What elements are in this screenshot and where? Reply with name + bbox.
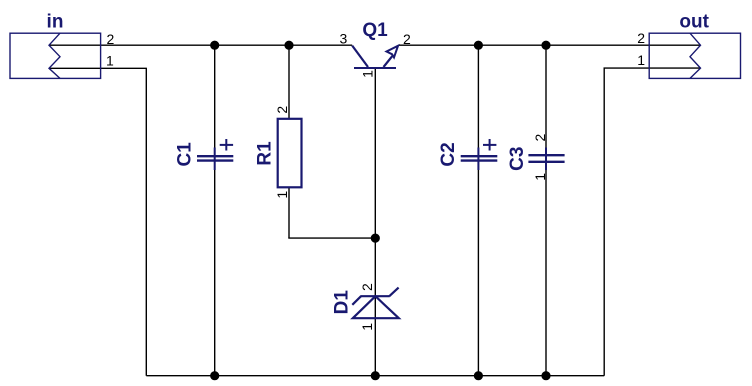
pin number: R1 pin 1 (274, 191, 290, 199)
label C2 (438, 142, 459, 166)
capacitor C1 (polarized) (197, 148, 233, 171)
wire: bottom ground rail (146, 375, 604, 377)
junction: C3 bottom (541, 371, 550, 380)
capacitor C3 (528, 148, 564, 171)
capacitor C2 (polarized) (461, 148, 498, 171)
junction: R1 top (284, 41, 293, 50)
resistor R1 (278, 119, 302, 188)
label C1 (175, 142, 196, 167)
wire: top rail IN node (in pin2 to Q1 pin3) (49, 44, 352, 46)
svg-text:3: 3 (340, 31, 348, 47)
svg-text:2: 2 (107, 31, 115, 47)
svg-text:1: 1 (637, 52, 645, 68)
label Q1 (362, 20, 388, 41)
connector "out" body (649, 33, 740, 78)
svg-text:Q1: Q1 (362, 20, 388, 41)
pin number: in pin 1 (106, 53, 114, 69)
transistor Q1 (352, 46, 398, 68)
wire: out pin1 horizontal segment (604, 67, 701, 69)
label "out" (679, 11, 709, 32)
wire: C1 vertical branch (214, 45, 216, 376)
svg-text:1: 1 (106, 53, 114, 69)
pin number: D1 pin 2 (359, 283, 375, 291)
svg-text:C1: C1 (175, 142, 196, 167)
wire: Q1 base / D1 vertical branch (374, 69, 376, 376)
C2 plus sign (483, 139, 496, 151)
junction: R1 / Q1 base node (371, 234, 380, 243)
wire: top rail OUT node (Q1 pin2 to out pin2) (398, 44, 700, 46)
pin number: out pin 1 (637, 52, 645, 68)
label C3 (507, 147, 528, 171)
svg-text:2: 2 (637, 30, 645, 46)
zener diode D1 (352, 288, 399, 319)
svg-text:2: 2 (532, 133, 548, 141)
pin number: Q1 pin 1 (359, 70, 375, 78)
svg-text:2: 2 (403, 31, 411, 47)
svg-text:in: in (47, 12, 64, 33)
svg-text:C2: C2 (438, 142, 459, 166)
label D1 (332, 290, 353, 315)
svg-text:2: 2 (274, 106, 290, 114)
svg-text:2: 2 (359, 283, 375, 291)
svg-text:1: 1 (359, 70, 375, 78)
junction: C1 bottom (210, 371, 219, 380)
wire: C2 vertical branch (477, 45, 479, 376)
wire: C3 vertical branch (545, 45, 547, 376)
wire: R1 to Q1 base node horizontal (288, 237, 375, 239)
junction: C1 top (210, 41, 219, 50)
wire: right vertical drop to bottom rail (603, 68, 605, 376)
wire: left vertical drop to bottom rail (145, 68, 147, 375)
pin number: Q1 pin 3 (340, 31, 348, 47)
junction: C3 top (541, 41, 550, 50)
svg-text:1: 1 (532, 173, 548, 181)
junction: C2 bottom (474, 371, 483, 380)
C1 plus sign (220, 139, 233, 151)
svg-text:1: 1 (274, 191, 290, 199)
wire: R1 bottom lead (288, 187, 290, 238)
junction: C2 top (474, 41, 483, 50)
svg-text:1: 1 (359, 323, 375, 331)
pin number: D1 pin 1 (359, 323, 375, 331)
pin number: Q1 pin 2 (403, 31, 411, 47)
svg-text:C3: C3 (507, 147, 528, 171)
connector "in" body (10, 33, 101, 78)
svg-text:R1: R1 (255, 141, 276, 166)
wire: R1 top lead (288, 45, 290, 119)
junction: D1 bottom (371, 371, 380, 380)
pin number: R1 pin 2 (274, 106, 290, 114)
pin number: C3 pin 1 (532, 173, 548, 181)
svg-text:out: out (679, 11, 709, 32)
svg-text:D1: D1 (332, 290, 353, 315)
wire: in pin1 horizontal segment (49, 67, 147, 69)
pin number: C3 pin 2 (532, 133, 548, 141)
pin number: out pin 2 (637, 30, 645, 46)
label R1 (255, 141, 276, 166)
pin number: in pin 2 (107, 31, 115, 47)
label "in" (47, 12, 64, 33)
